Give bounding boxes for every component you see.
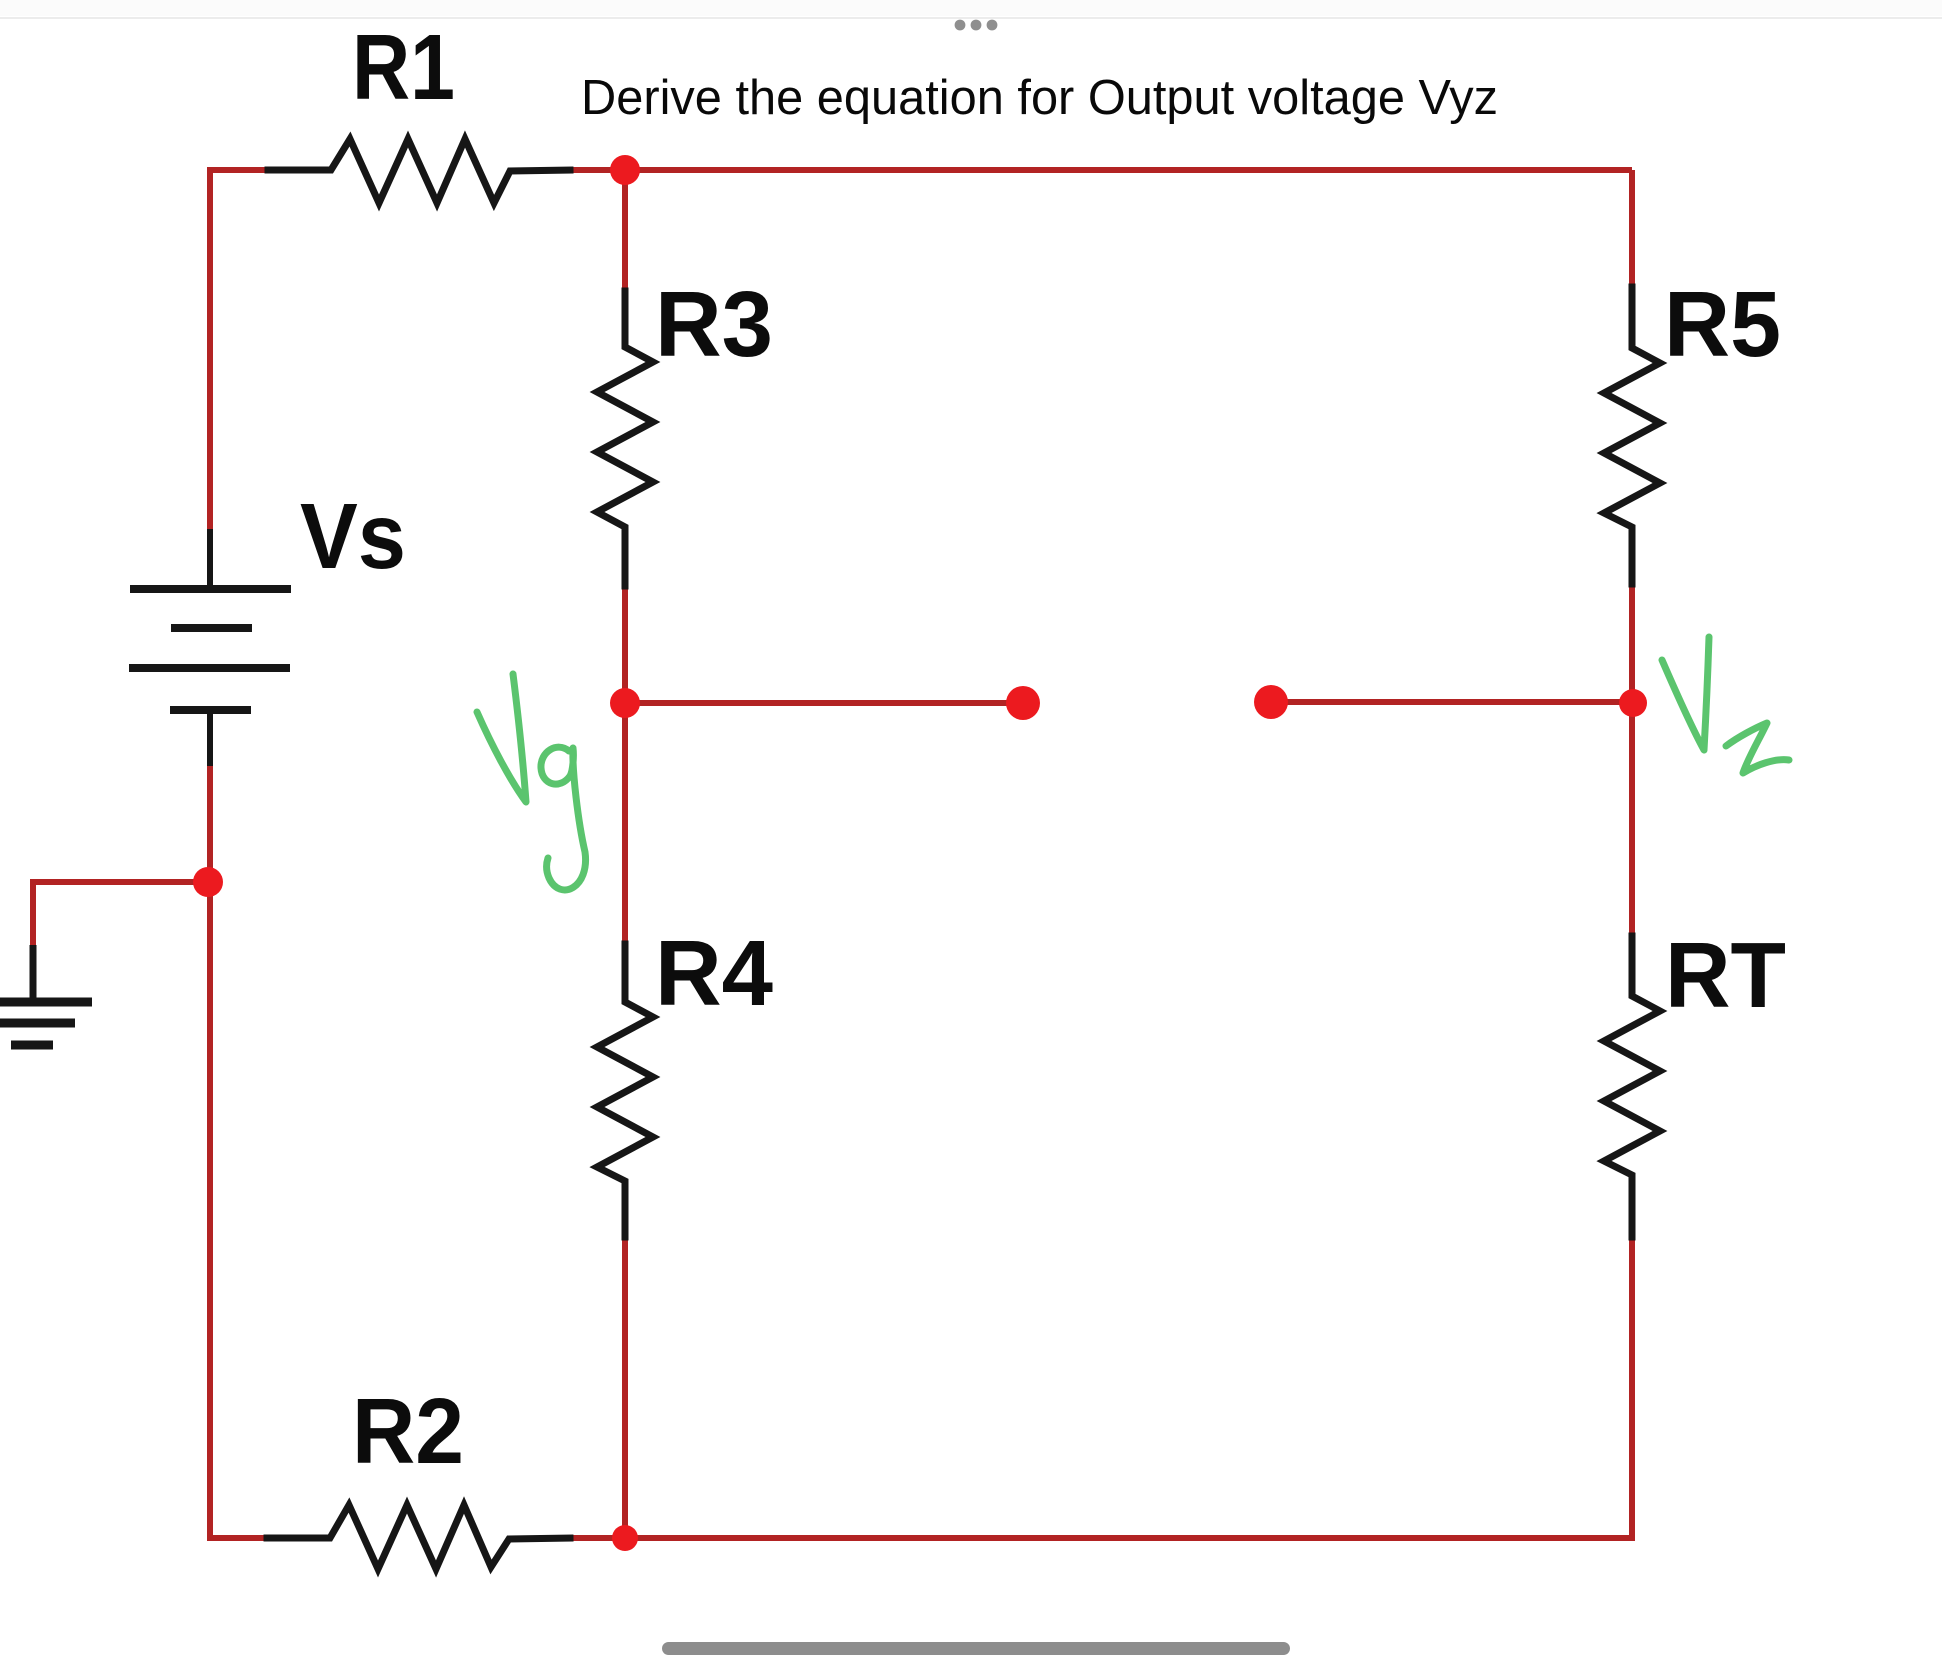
top hairline xyxy=(0,17,1942,19)
svg-text:R2: R2 xyxy=(352,1379,464,1483)
node Y junction xyxy=(610,688,640,718)
resistor R3 xyxy=(597,291,653,586)
wire RT bottom to corner xyxy=(1629,1235,1635,1540)
wire left rail upper (Vs top lead) xyxy=(207,170,213,531)
node top junction xyxy=(610,155,640,185)
wire ground branch xyxy=(33,882,210,947)
wire left rail lower xyxy=(210,764,270,1538)
node Y stub end dot xyxy=(1006,686,1040,720)
wire node Y column upper (R3 top) xyxy=(622,170,628,293)
resistor R2 xyxy=(267,1505,570,1569)
svg-text:Vs: Vs xyxy=(300,484,406,588)
top ellipsis dots xyxy=(955,20,966,31)
bottom junction xyxy=(612,1525,638,1551)
wire right rail upper (R5 top) xyxy=(1629,170,1635,289)
resistor R4 xyxy=(597,944,653,1237)
wire top right of R1 to right corner xyxy=(568,167,1632,173)
wire R3 bottom to node Y xyxy=(622,584,628,703)
node Z junction xyxy=(1619,689,1647,717)
svg-text:RT: RT xyxy=(1665,923,1786,1027)
black component strokes xyxy=(267,139,1660,1569)
resistor R5 xyxy=(1604,287,1660,584)
svg-text:R1: R1 xyxy=(352,15,455,119)
wire top-left corner to R1 left lead xyxy=(210,170,281,173)
wire bottom rail xyxy=(568,1535,1632,1538)
wire node Y to mid stub xyxy=(625,700,1023,706)
wire mid stub right to node Z xyxy=(1271,699,1632,705)
svg-text:R3: R3 xyxy=(655,272,773,376)
annotation Vy (green handwriting) xyxy=(477,674,586,890)
wire node Z to RT top xyxy=(1629,702,1635,938)
wire R4 top xyxy=(622,703,628,946)
svg-text:R4: R4 xyxy=(655,921,773,1025)
resistor R1 xyxy=(268,139,570,203)
svg-text:R5: R5 xyxy=(1664,272,1781,376)
home indicator bar xyxy=(662,1642,1290,1655)
resistor RT xyxy=(1604,936,1660,1237)
battery-ground junction xyxy=(193,867,223,897)
annotation Vz (green handwriting) xyxy=(1662,637,1789,773)
battery Vs xyxy=(129,529,291,766)
svg-text:Derive the equation for Output: Derive the equation for Output voltage V… xyxy=(581,70,1498,125)
ground xyxy=(0,945,92,1045)
wire R5 bottom to node Z xyxy=(1629,582,1635,702)
wire R4 bottom to bottom rail xyxy=(622,1235,628,1538)
node Z stub end dot xyxy=(1254,685,1288,719)
